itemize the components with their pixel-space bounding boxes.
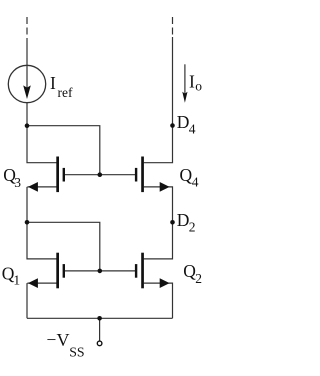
svg-text:−: − bbox=[47, 330, 57, 350]
svg-text:3: 3 bbox=[14, 175, 21, 190]
svg-text:Q: Q bbox=[180, 165, 193, 185]
svg-text:2: 2 bbox=[189, 220, 196, 235]
svg-text:4: 4 bbox=[189, 122, 196, 137]
svg-text:SS: SS bbox=[69, 344, 84, 359]
svg-text:ref: ref bbox=[58, 85, 73, 100]
svg-text:I: I bbox=[50, 73, 56, 93]
svg-text:4: 4 bbox=[192, 175, 199, 190]
svg-text:2: 2 bbox=[195, 271, 202, 286]
svg-text:1: 1 bbox=[13, 273, 20, 288]
svg-text:I: I bbox=[189, 72, 195, 92]
svg-text:o: o bbox=[195, 79, 202, 94]
svg-text:D: D bbox=[177, 112, 190, 132]
svg-text:D: D bbox=[177, 210, 190, 230]
svg-text:V: V bbox=[57, 330, 70, 350]
